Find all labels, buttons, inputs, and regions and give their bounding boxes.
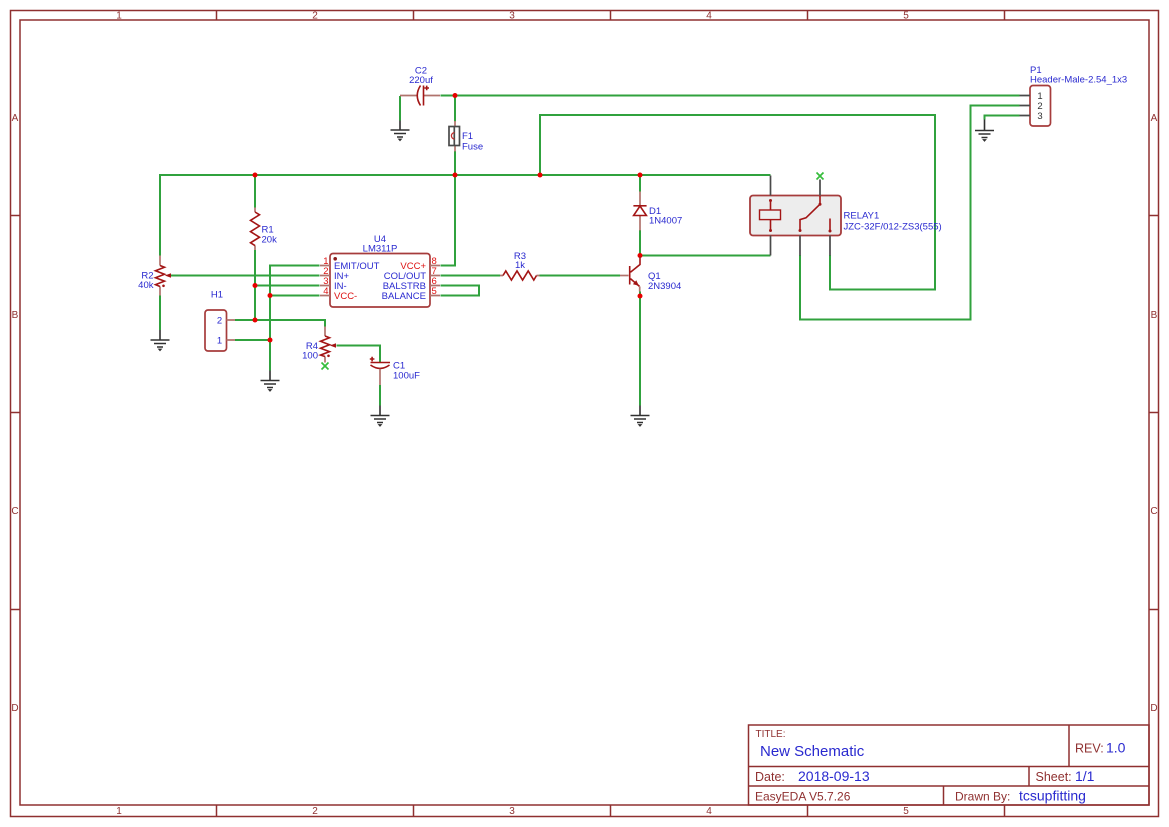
wire U4 pin7 to R3: [441, 275, 501, 277]
header P1: [1020, 65, 1128, 126]
frame left ticks: [11, 216, 21, 610]
svg-text:3: 3: [1037, 111, 1042, 122]
wire node to U4 IN-: [255, 285, 320, 287]
wire H1 pin1 to column: [235, 339, 270, 341]
svg-text:3: 3: [509, 11, 515, 22]
frame column numbers top: [116, 11, 909, 22]
junction rail relay loop: [538, 173, 543, 178]
svg-text:5: 5: [903, 11, 909, 22]
no-connect X on relay top pin: [817, 173, 824, 180]
JUNCTIONS: [253, 93, 643, 343]
ground under Q1: [631, 406, 650, 427]
wire Q1 emitter to ground: [639, 292, 641, 406]
wire U4 pin6 to pin5 loop: [441, 286, 480, 296]
svg-text:2018-09-13: 2018-09-13: [798, 768, 870, 784]
wire rail to R1 top: [254, 176, 256, 208]
no-connect X under R4: [322, 363, 329, 370]
svg-text:New Schematic: New Schematic: [760, 743, 865, 760]
svg-text:RELAY1: RELAY1: [844, 211, 880, 222]
wire D1 bottom to Q1 collector: [639, 230, 641, 256]
svg-text:20k: 20k: [262, 235, 278, 246]
svg-text:JZC-32F/012-ZS3(555): JZC-32F/012-ZS3(555): [844, 222, 942, 233]
svg-text:tcsupfitting: tcsupfitting: [1019, 788, 1086, 804]
junction rail fuse: [453, 173, 458, 178]
transistor Q1: [620, 257, 681, 293]
ground under C1: [371, 406, 390, 427]
svg-text:Fuse: Fuse: [462, 142, 483, 153]
wire U4 pin1 down to ground column: [270, 266, 320, 371]
header H1: [205, 290, 235, 352]
svg-text:Sheet:: Sheet:: [1036, 770, 1072, 784]
junction VCC- column: [268, 293, 273, 298]
svg-text:1/1: 1/1: [1075, 768, 1095, 784]
svg-text:1N4007: 1N4007: [649, 216, 682, 227]
svg-text:2: 2: [312, 806, 318, 817]
wire relay NO pin to P1 pin2: [800, 106, 1020, 320]
svg-text:C: C: [11, 506, 18, 517]
wire C1 bottom to ground: [379, 385, 381, 406]
wire R2 wiper to U4 IN+: [169, 275, 320, 277]
svg-text:5: 5: [903, 806, 909, 817]
svg-text:LM311P: LM311P: [363, 244, 398, 255]
junction C2/P1 node: [453, 93, 458, 98]
junction Q1 collector: [638, 253, 643, 258]
svg-text:TITLE:: TITLE:: [756, 729, 786, 740]
svg-text:REV:: REV:: [1075, 742, 1104, 756]
frame row letters right: [1150, 113, 1157, 714]
wire rail to D1 top: [639, 176, 641, 192]
junction R1/IN-: [253, 283, 258, 288]
svg-text:1k: 1k: [515, 260, 525, 271]
svg-text:B: B: [12, 310, 19, 321]
svg-text:D: D: [1150, 703, 1157, 714]
title block outline: [749, 725, 1150, 805]
svg-text:H1: H1: [211, 290, 223, 301]
wire R4 wiper to C1 top: [337, 346, 381, 363]
svg-text:A: A: [12, 113, 19, 124]
wire U4 VCC- to column: [270, 295, 320, 297]
frame column numbers bottom: [116, 806, 909, 817]
ground under P1 pin3: [975, 120, 994, 142]
wire C2 left to ground: [399, 96, 401, 121]
svg-text:4: 4: [706, 11, 712, 22]
potentiometer R2: [138, 256, 171, 296]
svg-text:4: 4: [706, 806, 712, 817]
wire P1 pin3 to ground: [985, 116, 1020, 120]
relay coil: [770, 201, 772, 231]
svg-text:EasyEDA V5.7.26: EasyEDA V5.7.26: [755, 790, 851, 804]
svg-text:1: 1: [116, 806, 122, 817]
ground under R2: [151, 330, 170, 351]
wire U4 pin8 up to rail: [441, 176, 456, 266]
svg-text:Header-Male-2.54_1x3: Header-Male-2.54_1x3: [1030, 75, 1127, 86]
svg-text:2: 2: [312, 11, 318, 22]
svg-text:220uf: 220uf: [409, 75, 433, 86]
wire VCC top rail to P1 pin1: [441, 95, 1020, 97]
junction Q1 emitter: [638, 294, 643, 299]
frame top ticks: [217, 11, 1005, 21]
svg-text:3: 3: [509, 806, 515, 817]
title block row lines: [749, 767, 1150, 787]
wire fuse bottom to rail: [454, 151, 456, 174]
svg-text:Date:: Date:: [755, 770, 785, 784]
svg-text:1: 1: [217, 336, 222, 347]
wire R2 bottom to ground: [159, 296, 161, 331]
op-amp U4 LM311P: [320, 234, 440, 307]
svg-text:Drawn By:: Drawn By:: [955, 790, 1010, 804]
svg-text:VCC-: VCC-: [334, 291, 357, 302]
frame right ticks: [1149, 216, 1159, 610]
TITLE BLOCK: [749, 725, 1150, 805]
wire Q1 collector to relay coil: [640, 255, 771, 257]
junction rail R2/R1: [253, 173, 258, 178]
potentiometer R4: [302, 327, 336, 363]
svg-text:F1: F1: [462, 131, 473, 142]
ground under H1 column: [261, 371, 280, 392]
svg-text:2N3904: 2N3904: [648, 281, 681, 292]
ground under C2: [391, 121, 410, 142]
frame bottom ticks: [217, 805, 1005, 817]
diode D1: [633, 192, 682, 231]
svg-text:A: A: [1151, 113, 1158, 124]
svg-text:4: 4: [323, 286, 328, 297]
svg-text:B: B: [1151, 310, 1158, 321]
resistor R3: [500, 251, 540, 280]
svg-text:1.0: 1.0: [1106, 740, 1126, 756]
wire R3 to Q1 base: [540, 275, 621, 277]
svg-text:40k: 40k: [138, 280, 154, 291]
relay pins: [771, 176, 831, 256]
capacitor C2: [400, 66, 440, 106]
wire junction to fuse top: [454, 97, 456, 122]
junction H1 pin1 column: [268, 338, 273, 343]
relay switch armature: [800, 196, 830, 231]
wire main rail with R2 drop: [160, 175, 771, 256]
svg-text:5: 5: [432, 286, 437, 297]
junction rail D1: [638, 173, 643, 178]
wire R1 bottom: [254, 250, 256, 320]
fuse F1: [449, 121, 483, 153]
frame row letters left: [11, 113, 18, 714]
junction R1 bottom H1 pin2: [253, 318, 258, 323]
wire H1 pin2 to R4 top: [235, 320, 325, 327]
svg-text:D: D: [11, 703, 18, 714]
resistor R1: [251, 208, 278, 251]
title block column lines: [944, 725, 1070, 805]
svg-text:C: C: [1150, 506, 1157, 517]
svg-text:1: 1: [116, 11, 122, 22]
wire relay NC pin loop to rail node: [540, 115, 935, 290]
svg-text:BALANCE: BALANCE: [382, 291, 426, 302]
svg-text:2: 2: [217, 316, 222, 327]
svg-text:100: 100: [302, 351, 318, 362]
svg-text:100uF: 100uF: [393, 371, 420, 382]
capacitor C1: [370, 357, 420, 385]
relay RELAY1: [750, 176, 942, 256]
relay internal dots: [769, 199, 772, 202]
